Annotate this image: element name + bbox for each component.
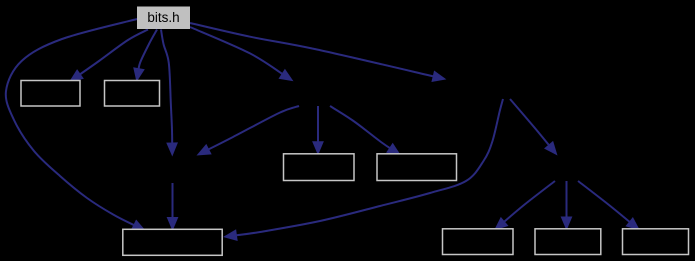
svg-text:bits.h: bits.h bbox=[147, 10, 179, 25]
